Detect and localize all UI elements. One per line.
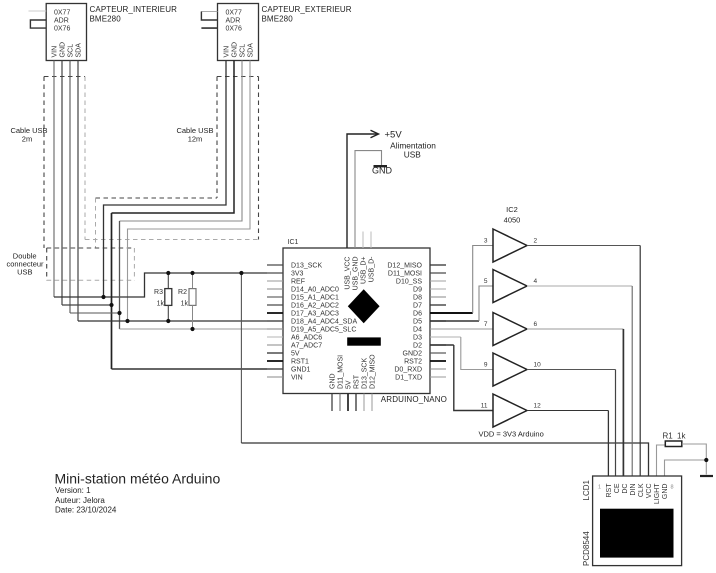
IC1 pin GND1 stub [267,368,283,370]
op-amp buffer U5 (IC2 4050) [493,394,527,427]
svg-text:+5V: +5V [385,130,403,141]
wire J2 GND staircase [112,61,235,214]
svg-text:RST: RST [354,374,361,389]
IC1 pin A6_ADC6 stub [267,336,283,338]
wire D4 to buffer3 input [430,328,493,330]
svg-text:D16_A2_ADC2: D16_A2_ADC2 [291,303,339,310]
svg-text:Mini-station météo Arduino: Mini-station météo Arduino [55,471,221,487]
svg-text:5: 5 [484,278,488,285]
IC1 pin D13_SCK bottom stub [363,394,365,412]
junction dot R2 bottom [190,327,194,331]
wire SCL trunk vertical [119,221,121,329]
resistor R2 top wire [192,273,194,289]
IC1 pin 3V3 stub [267,272,283,274]
IC1 pin REF stub [267,280,283,282]
svg-text:11: 11 [481,403,488,410]
op-amp buffer U4 (IC2 4050) [493,353,527,386]
svg-text:1k: 1k [181,301,189,308]
wire buffer U5 output horizontal [527,410,608,412]
IC1 pin D0_RXD stub [430,368,446,370]
IC1 pin D16_A2_ADC2 stub [267,304,283,306]
wire VIN row to 3V3 [54,273,267,297]
svg-text:BME280: BME280 [90,15,122,24]
svg-text:1: 1 [598,485,601,491]
svg-text:12: 12 [534,403,542,410]
svg-text:GND: GND [60,42,67,58]
IC1 pin D14_A0_ADC0 stub [267,288,283,290]
svg-text:D6: D6 [413,311,422,318]
wire SDA row to IC1 [78,320,267,322]
svg-text:D1_TXD: D1_TXD [395,375,422,382]
double connecteur USB dashed box right edge [133,248,135,280]
wire buffer U3 output vertical to LCD [622,329,624,476]
IC1 pin D2 stub [430,344,446,346]
wire buffer U3 output horizontal [527,328,623,330]
svg-text:R3: R3 [154,289,163,296]
IC1 pin D8 stub [430,296,446,298]
svg-text:USB: USB [17,267,32,276]
IC1 pin USB_D+ stub [362,232,364,249]
svg-text:CE: CE [614,483,621,493]
J2 pin 0X77 stub [201,11,217,13]
IC1 pin RST bottom stub [355,394,357,412]
svg-text:0X77: 0X77 [54,9,70,16]
op-amp buffer U1 (IC2 4050) [493,229,527,262]
svg-text:R2: R2 [178,289,187,296]
junction dot SCL [117,311,121,315]
wire D5 to buffer2 input [430,320,479,322]
svg-text:LCD1: LCD1 [582,479,591,500]
svg-text:ADR: ADR [54,18,69,25]
IC1 ARDUINO_NANO body [283,248,430,394]
svg-text:USB_VCC: USB_VCC [345,257,352,290]
resistor R3 body [165,289,172,306]
svg-text:D18_A4_ADC4_SDA: D18_A4_ADC4_SDA [291,319,357,326]
svg-text:D4: D4 [413,327,422,334]
svg-text:D2: D2 [413,343,422,350]
wire J1 ADR to 0X76 loop [30,20,46,28]
svg-text:D12_MISO: D12_MISO [387,263,422,270]
svg-text:D15_A1_ADC1: D15_A1_ADC1 [291,295,339,302]
svg-text:VIN: VIN [224,46,231,58]
svg-text:GND: GND [330,373,337,389]
wire buffer U2 output horizontal [527,285,632,287]
cable 12m dashed box left edge [216,77,218,199]
svg-text:6: 6 [534,321,538,328]
IC1 pin D17_A3_ADC3 stub [267,312,283,314]
connector J1 CAPTEUR_INTERIEUR box [46,4,86,61]
svg-text:5V: 5V [346,380,353,389]
svg-text:SCL: SCL [240,44,247,58]
wire J1 VIN column [53,61,55,298]
junction dot VDD at 3V3 [239,271,243,275]
IC1 pin D7 stub [430,304,446,306]
wire GND trunk vertical [111,213,113,369]
IC1 pin D11_MOSI stub [430,272,446,274]
svg-text:D10_SS: D10_SS [396,279,422,286]
double connecteur USB dashed box bottom edge [47,279,135,281]
svg-text:5V: 5V [291,351,300,358]
junction dot SDA [125,319,129,323]
svg-text:CLK: CLK [638,483,645,497]
svg-text:8: 8 [671,485,674,491]
svg-text:D14_A0_ADC0: D14_A0_ADC0 [291,287,339,294]
cable 12m dashed bottom edge [85,239,259,241]
svg-text:0X76: 0X76 [54,25,70,32]
svg-text:1k: 1k [157,301,165,308]
wire LCD GND pin to ground [665,460,707,476]
IC1 pin D15_A1_ADC1 stub [267,296,283,298]
ground symbol bar (LCD) [700,475,713,477]
svg-text:IC1: IC1 [288,239,299,246]
wire buffer U2 output vertical to LCD [631,286,633,476]
svg-text:3V3: 3V3 [291,271,304,278]
svg-text:2m: 2m [22,135,32,144]
wire J2 VIN staircase [104,61,227,298]
+5V arrow head [371,130,379,137]
ground symbol bar (alimentation) [374,165,388,167]
wire buffer U4 output vertical to LCD [615,370,617,477]
svg-text:0X77: 0X77 [226,9,242,16]
LCD1 box [593,476,682,566]
svg-text:D8: D8 [413,295,422,302]
svg-text:USB_D-: USB_D- [369,256,376,282]
wire J1 GND column [61,61,63,306]
cable 12m dashed elbow horizontal [96,197,218,199]
IC1 pin 5V stub [267,352,283,354]
wire GND1 row to IC1 [112,368,268,370]
J1 pin 0X77 no-connect stub [29,10,47,12]
svg-text:VIN: VIN [291,375,303,382]
svg-text:2: 2 [534,238,538,245]
IC1 pin USB_D- stub [370,232,372,249]
cable 12m dashed box right edge [258,77,260,240]
svg-text:ARDUINO_NANO: ARDUINO_NANO [381,395,447,404]
op-amp buffer U3 (IC2 4050) [493,313,527,346]
IC1 pin D12_MISO bottom stub [371,394,373,412]
junction dot GND [109,303,113,307]
svg-text:SCL: SCL [68,44,75,58]
wire buffer U5 output vertical to LCD [607,411,609,477]
svg-text:D13_SCK: D13_SCK [291,263,322,270]
IC1 logo bar [347,337,381,345]
IC1 pin D3 stub [430,336,446,338]
IC1 pin A7_ADC7 stub [267,344,283,346]
wire D2 to buffer5 input [430,344,454,346]
svg-text:D17_A3_ADC3: D17_A3_ADC3 [291,311,339,318]
svg-text:D13_SCK: D13_SCK [362,358,369,389]
svg-text:R1: R1 [663,432,674,441]
resistor R2 bottom wire [192,305,194,329]
resistor R1 left wire from LIGHT [657,445,666,476]
svg-text:A7_ADC7: A7_ADC7 [291,343,322,350]
LCD1 screen [600,509,674,558]
svg-text:Date: 23/10/2024: Date: 23/10/2024 [55,506,117,515]
svg-text:D11_MOSI: D11_MOSI [388,271,422,278]
wire USB_GND to GND symbol [355,151,382,248]
cable 2m dashed box right edge [84,77,86,240]
wire USB_VCC to +5V [347,134,377,248]
wire VDD 3V3 vertical [240,273,242,443]
double connecteur USB dashed box top edge [47,247,135,249]
junction dot R1 ground [704,458,708,462]
svg-text:BME280: BME280 [262,15,294,24]
wire J2 SDA staircase [128,61,251,322]
svg-text:RST2: RST2 [404,359,422,366]
svg-text:VCC: VCC [646,484,653,499]
wire J2 ADR to 0X77 [201,12,217,21]
svg-text:SDA: SDA [76,43,83,58]
IC1 pin GND2 stub [430,352,446,354]
svg-text:3: 3 [484,238,488,245]
svg-text:USB_GND: USB_GND [353,257,360,291]
wire GND row [62,304,112,306]
IC1 pin RST1 stub [267,360,283,362]
svg-text:DIN: DIN [630,484,637,496]
junction dot R3 bottom [166,319,170,323]
svg-text:Version: 1: Version: 1 [55,486,91,495]
IC1 pin VIN stub [267,376,283,378]
svg-text:USB: USB [404,150,422,160]
wire SCL D19 row to IC1 [120,328,268,330]
svg-text:D5: D5 [413,319,422,326]
svg-text:DC: DC [622,484,629,494]
svg-text:GND2: GND2 [403,351,423,358]
resistor R3 top wire [167,273,169,289]
svg-text:CAPTEUR_EXTERIEUR: CAPTEUR_EXTERIEUR [262,5,352,14]
IC1 pin RST2 stub [430,360,446,362]
IC1 pin 5V bottom stub [347,394,349,412]
svg-text:IC2: IC2 [506,205,518,214]
wire J1 SDA column [77,61,79,322]
svg-text:SDA: SDA [248,43,255,58]
junction dot VIN [101,295,105,299]
IC1 pin D4 stub [430,328,446,330]
svg-text:10: 10 [534,362,542,369]
svg-text:7: 7 [484,321,488,328]
double connecteur USB dashed box left edge [46,248,48,280]
svg-text:GND: GND [232,42,239,58]
svg-text:GND: GND [372,166,393,176]
svg-text:D19_A5_ADC5_SLC: D19_A5_ADC5_SLC [291,327,356,334]
IC1 pin D9 stub [430,288,446,290]
op-amp buffer U2 (IC2 4050) [493,270,527,303]
svg-text:12m: 12m [188,135,203,144]
svg-text:D0_RXD: D0_RXD [394,367,422,374]
svg-text:D12_MISO: D12_MISO [370,354,377,389]
svg-text:RST1: RST1 [291,359,309,366]
IC1 pin D10_SS stub [430,280,446,282]
svg-text:RST: RST [606,483,613,498]
junction dot R2 top [190,271,194,275]
svg-text:D9: D9 [413,287,422,294]
resistor R1 body [665,441,682,447]
wire buffer U4 output horizontal [527,369,616,371]
svg-text:GND1: GND1 [291,367,311,374]
svg-text:ADR: ADR [226,18,241,25]
svg-text:A6_ADC6: A6_ADC6 [291,335,322,342]
cable 12m dashed elbow vertical [95,198,97,248]
svg-text:Auteur: Jelora: Auteur: Jelora [55,496,105,505]
svg-text:VDD = 3V3 Arduino: VDD = 3V3 Arduino [479,430,544,439]
svg-text:PCD8544: PCD8544 [582,531,591,566]
wire SCL row [70,312,120,314]
IC1 pin GND bottom stub [331,394,333,412]
connector J2 CAPTEUR_EXTERIEUR box [218,4,259,61]
svg-text:GND: GND [662,484,669,500]
svg-text:D7: D7 [413,303,422,310]
svg-text:D11_MOSI: D11_MOSI [338,355,345,389]
cable 2m dashed box left edge [43,77,45,249]
junction dot R3 top [166,271,170,275]
IC1 pin D13_SCK stub [267,264,283,266]
svg-text:CAPTEUR_INTERIEUR: CAPTEUR_INTERIEUR [90,5,178,14]
wire D6 to buffer1 input [430,312,473,314]
svg-text:0X76: 0X76 [226,25,242,32]
IC1 pin D11_MOSI bottom stub [339,394,341,412]
wire buffer U1 output horizontal [527,245,640,247]
IC1 logo diamond [348,289,380,323]
svg-text:USB_D+: USB_D+ [361,257,368,284]
svg-text:VIN: VIN [52,46,59,58]
svg-text:1k: 1k [677,432,686,441]
svg-text:4050: 4050 [504,216,521,225]
resistor R2 body [189,289,196,306]
wire buffer U1 output vertical to LCD [639,246,641,477]
J2 pin 0X76 stub [201,27,217,29]
svg-text:D3: D3 [413,335,422,342]
svg-text:REF: REF [291,279,305,286]
svg-text:LIGHT: LIGHT [654,483,661,504]
wire J1 SCL column [69,61,71,314]
IC1 pin D1_TXD stub [430,376,446,378]
IC1 pin D5 stub [430,320,446,322]
resistor R3 bottom wire [167,305,169,321]
wire D3 to buffer4 input [430,336,461,338]
svg-text:4: 4 [534,278,538,285]
wire VDD row to LCD VCC [241,443,648,476]
IC1 pin D6 stub [430,312,446,314]
IC1 pin D12_MISO stub [430,264,446,266]
IC1 pin D18_A4_ADC4_SDA stub [267,320,283,322]
cable 12m dashed box top edge [217,76,259,78]
IC1 pin D19_A5_ADC5_SLC stub [267,328,283,330]
wire J2 SCL staircase [120,61,243,222]
resistor R1 right wire [682,444,707,475]
cable 2m dashed box top edge [44,76,85,78]
svg-text:9: 9 [484,362,488,369]
